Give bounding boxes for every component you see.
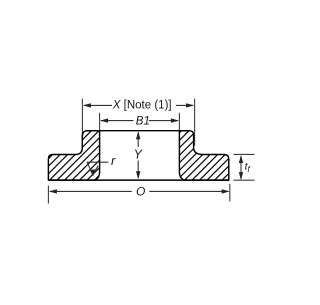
svg-text:O: O (136, 184, 145, 198)
svg-text:B1: B1 (136, 115, 150, 127)
svg-text:Y: Y (134, 147, 144, 161)
svg-text:tf: tf (245, 161, 251, 175)
svg-text:X [Note (1)]: X [Note (1)] (112, 99, 172, 111)
svg-text:r: r (111, 153, 116, 168)
